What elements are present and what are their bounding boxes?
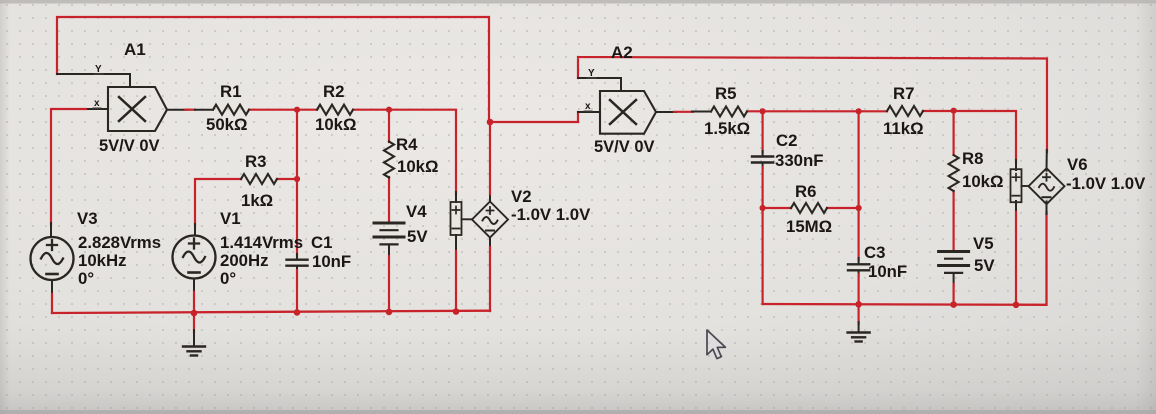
svg-text:R8: R8: [962, 149, 983, 168]
svg-text:C1: C1: [311, 233, 332, 252]
wire: V2 diamond top to node D: [489, 122, 491, 202]
wire: V6 diamond bottom stub: [1046, 202, 1048, 215]
svg-text:V3: V3: [77, 209, 98, 228]
resistor R7: [887, 106, 923, 116]
wire: A2 output to R5: [656, 111, 711, 114]
wire: R6 left lead: [763, 207, 791, 209]
node: C2-R7 junction: [856, 108, 862, 114]
svg-text:R6: R6: [795, 182, 816, 201]
node: V1-ground rail junction: [191, 310, 198, 317]
wire: R8 to V5 battery: [952, 191, 954, 251]
wire: V6 control rect bottom to rail: [1015, 201, 1017, 305]
pin label Y of A1: [94, 64, 103, 75]
source V2 control rect: [451, 202, 462, 235]
wire: R2 to V2 control corner: [353, 110, 456, 194]
pin label X of A1: [93, 98, 101, 109]
svg-text:-1.0V 1.0V: -1.0V 1.0V: [511, 205, 591, 224]
node: R5-C2 junction: [760, 108, 766, 114]
svg-text:R5: R5: [715, 84, 736, 103]
battery V5: [939, 252, 969, 273]
svg-text:R4: R4: [396, 135, 418, 154]
node: C3-ground rail junction: [855, 301, 862, 308]
svg-text:R7: R7: [893, 84, 914, 103]
svg-text:V6: V6: [1067, 155, 1088, 174]
resistor R1: [213, 105, 249, 115]
wire: V3 bottom to rail: [51, 280, 53, 313]
capacitor C2: [752, 157, 773, 163]
wire: R3 right lead to node: [277, 178, 297, 180]
svg-text:5V: 5V: [974, 256, 995, 275]
svg-text:V2: V2: [511, 187, 532, 206]
svg-text:10nF: 10nF: [868, 262, 907, 281]
pin label X of A2: [584, 101, 592, 112]
wire: A1 output to R1: [167, 109, 213, 111]
svg-text:5V/V 0V: 5V/V 0V: [99, 137, 160, 155]
svg-text:10kHz: 10kHz: [78, 251, 127, 270]
wire: V2 diamond bottom to rail: [489, 238, 491, 312]
source V6 diamond: [1022, 168, 1065, 204]
resistor R5: [711, 107, 747, 117]
wire: R7 right to V6 control corner: [923, 111, 1016, 170]
wire: R4 column top: [388, 110, 390, 142]
svg-text:1.414Vrms: 1.414Vrms: [220, 233, 303, 252]
svg-text:10kΩ: 10kΩ: [397, 157, 438, 176]
wire: V4 bottom to rail: [388, 245, 390, 313]
wire: A1 X input from V3: [51, 109, 108, 237]
svg-text:0°: 0°: [220, 269, 236, 288]
wire: V5 bottom to rail: [953, 273, 955, 305]
svg-text:10kΩ: 10kΩ: [962, 172, 1003, 191]
resistor R3: [241, 174, 277, 184]
wire: R8 column: [952, 111, 954, 155]
wire: A1 Y input elbow: [57, 74, 130, 87]
wire: R3 left lead to V1: [195, 179, 241, 235]
wire: R1 to R2 through node: [249, 109, 317, 111]
node: R6 right junction: [856, 205, 862, 211]
source V6 control rect: [1011, 169, 1022, 202]
svg-text:0°: 0°: [78, 269, 94, 288]
node: V2 control rail junction: [453, 308, 460, 315]
svg-text:C3: C3: [864, 243, 885, 262]
ground (left): [183, 313, 205, 356]
resistor R4 (vertical): [384, 142, 394, 178]
svg-text:R2: R2: [323, 82, 344, 101]
svg-text:V1: V1: [220, 209, 241, 228]
svg-text:R3: R3: [245, 152, 266, 171]
svg-text:330nF: 330nF: [775, 151, 824, 170]
svg-text:5V: 5V: [407, 227, 428, 246]
wire: A2 Y input elbow: [578, 78, 621, 91]
svg-text:15MΩ: 15MΩ: [786, 217, 832, 236]
ground (right): [848, 304, 870, 341]
svg-text:V4: V4: [406, 202, 427, 221]
pin label Y of A2: [587, 68, 596, 79]
source V1 (AC): [173, 236, 216, 279]
node: V5 rail junction: [950, 301, 957, 308]
wire: V6 diamond top stub: [1046, 150, 1048, 171]
node: R2-R4 junction: [386, 107, 392, 113]
svg-text:x: x: [94, 98, 100, 109]
wire: V1 bottom to rail: [193, 279, 195, 313]
node: R3-C1 junction: [294, 176, 300, 182]
wire: C1 column: [296, 110, 298, 313]
wire: left top feedback rail: [57, 17, 489, 122]
svg-text:R1: R1: [220, 82, 241, 101]
wire: R5 to R7 line with nodes: [747, 110, 887, 112]
svg-text:2.828Vrms: 2.828Vrms: [78, 233, 161, 252]
svg-text:-1.0V 1.0V: -1.0V 1.0V: [1066, 174, 1146, 193]
svg-text:C2: C2: [776, 131, 797, 150]
node: C1 rail junction: [294, 309, 301, 316]
battery V4: [374, 223, 404, 244]
multiplier A2 body: [600, 91, 656, 134]
node: V2 output to A1/A2 junction: [487, 119, 494, 126]
svg-text:10nF: 10nF: [312, 252, 351, 271]
wire: A2 top feedback rail: [578, 57, 1047, 152]
svg-text:1kΩ: 1kΩ: [241, 191, 273, 210]
wire: V2 control rect top stub: [455, 192, 457, 202]
svg-text:A1: A1: [124, 40, 146, 59]
svg-text:11kΩ: 11kΩ: [883, 119, 924, 138]
source V2 diamond: [462, 202, 509, 238]
capacitor C3: [848, 264, 869, 270]
node: V4 rail junction: [386, 309, 393, 316]
svg-text:A2: A2: [611, 43, 633, 62]
svg-text:10kΩ: 10kΩ: [315, 115, 356, 134]
svg-text:50kΩ: 50kΩ: [206, 115, 247, 134]
wire: left bottom ground rail: [52, 311, 490, 313]
wire: C3 column: [857, 111, 859, 304]
node: R6 left junction: [760, 205, 766, 211]
svg-text:x: x: [585, 101, 591, 112]
wire: R4 to V4 battery: [388, 177, 390, 222]
source V3 (AC): [31, 237, 74, 280]
capacitor C1: [287, 260, 308, 266]
resistor R8 (vertical): [949, 155, 959, 191]
node: R1-R2-C1 junction: [294, 107, 300, 113]
wire: node D to A2 X input: [490, 112, 600, 122]
wire: right bottom rail: [763, 212, 1047, 305]
wire: C2 column: [761, 111, 763, 304]
svg-text:5V/V 0V: 5V/V 0V: [594, 138, 655, 156]
wire: R6 right lead: [827, 207, 859, 209]
svg-text:V5: V5: [973, 234, 994, 253]
wire: V2 control rect bottom to rail: [455, 235, 457, 312]
svg-text:Y: Y: [588, 68, 595, 79]
svg-text:1.5kΩ: 1.5kΩ: [704, 119, 750, 138]
svg-text:Y: Y: [95, 64, 102, 75]
mouse cursor: [707, 330, 725, 359]
resistor R2: [317, 105, 353, 115]
resistor R6: [791, 203, 827, 213]
node: R7-R8 junction: [951, 108, 957, 114]
node: V6 control rail junction: [1013, 302, 1020, 309]
svg-text:200Hz: 200Hz: [220, 251, 269, 270]
multiplier A1 body: [108, 87, 167, 131]
